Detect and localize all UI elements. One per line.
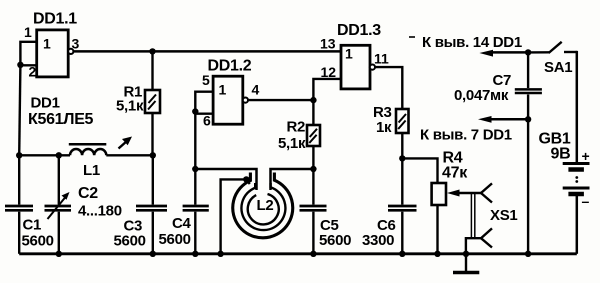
junction C7 bottom rail <box>525 251 531 257</box>
wire pin6 of DD1.2 <box>195 112 213 114</box>
wire C6 top <box>401 158 403 204</box>
wire left rail to C1 <box>18 155 20 204</box>
capacitor C3 <box>136 206 167 210</box>
wire tank top y=155 <box>19 154 70 156</box>
svg-text:К выв. 14 DD1: К выв. 14 DD1 <box>422 34 522 51</box>
svg-text:6: 6 <box>203 113 211 129</box>
wire C4 to bottom rail <box>194 212 196 254</box>
svg-text:1: 1 <box>24 24 32 40</box>
wire R1 top <box>151 51 153 90</box>
wire down to C4 <box>194 169 196 205</box>
svg-text:L1: L1 <box>83 162 100 179</box>
wire L2 tap <box>221 179 250 253</box>
junction C3 bottom rail <box>150 251 156 257</box>
junction C2 top <box>56 152 62 158</box>
svg-text:DD1.3: DD1.3 <box>337 22 381 39</box>
wire C7 bottom to rail <box>527 95 529 254</box>
connector XS1 top contact <box>481 183 492 202</box>
wire C3 to bottom rail <box>152 212 154 254</box>
junction C6 bottom rail <box>399 251 405 257</box>
wire L2 net right segment <box>271 169 314 190</box>
junction DD1.1 inputs <box>17 62 23 68</box>
battery GB1 <box>563 164 590 195</box>
inductor L1 <box>69 137 132 156</box>
wire R4 bottom to rail <box>436 205 438 254</box>
resistor R4 (variable) <box>432 183 446 205</box>
wire pin1 of DD1.1 <box>20 42 36 65</box>
junction R3 / C6 / R4 <box>399 155 405 161</box>
junction XS1 ground rail <box>463 251 469 257</box>
svg-text:C4: C4 <box>172 215 192 232</box>
gate DD1.1 <box>37 30 74 77</box>
svg-text:R2: R2 <box>287 119 306 136</box>
svg-text:5: 5 <box>202 72 210 88</box>
wire pin5 of DD1.2 <box>195 92 213 112</box>
svg-text:–: – <box>582 193 590 209</box>
junction DD1.2 out / R2 / pin12 <box>310 97 316 103</box>
junction L2 tap bottom rail <box>217 251 223 257</box>
capacitor C1 <box>5 206 33 210</box>
wire R2 top <box>312 100 314 125</box>
svg-text:1: 1 <box>345 46 353 62</box>
junction supply 7 node <box>525 116 531 122</box>
svg-text:1: 1 <box>43 36 51 52</box>
wire DD1.2 output <box>248 99 313 101</box>
svg-text:DD1.1: DD1.1 <box>33 11 77 28</box>
wire R4 top branch <box>402 158 437 183</box>
junction R2 / L2 / C5 <box>310 166 316 172</box>
wire R1 bottom to node <box>151 113 153 155</box>
svg-text:L2: L2 <box>257 197 274 214</box>
svg-text:DD1.2: DD1.2 <box>208 58 252 75</box>
svg-text:+: + <box>582 148 590 164</box>
svg-text:3: 3 <box>72 36 80 52</box>
inductor L2 (loop) <box>233 173 293 238</box>
svg-text:К выв. 7 DD1: К выв. 7 DD1 <box>420 127 512 144</box>
junction DD1.2 inputs <box>192 108 198 114</box>
wire bottom rail <box>19 252 577 255</box>
svg-text:5600: 5600 <box>159 231 191 248</box>
junction C4 bottom rail <box>192 251 198 257</box>
wire to pin 12 <box>313 79 341 100</box>
svg-text:5,1к: 5,1к <box>116 98 144 115</box>
junction R4 bottom rail <box>434 251 440 257</box>
wire C6 to bottom rail <box>401 212 403 254</box>
junction L2 tap dot <box>243 176 249 182</box>
supply arrow to pin 7 <box>478 116 528 123</box>
wire L1 to R1 node <box>106 154 153 156</box>
svg-text:4...180: 4...180 <box>78 203 122 220</box>
svg-text:12: 12 <box>321 64 337 80</box>
svg-text:1: 1 <box>219 82 227 98</box>
wire DD1.2 input down <box>194 112 196 170</box>
resistor R2 <box>307 125 320 146</box>
svg-text:3300: 3300 <box>362 232 394 249</box>
wire C5 to bottom rail <box>312 212 314 254</box>
capacitor C2 (variable) <box>45 192 72 219</box>
svg-text:5600: 5600 <box>319 232 351 249</box>
junction L2 net left <box>192 166 198 172</box>
wire R3 bottom <box>401 133 403 158</box>
resistor R1 <box>145 90 160 113</box>
junction R1/C3/L1 node <box>150 152 156 158</box>
svg-text:C1: C1 <box>23 217 42 234</box>
svg-text:5600: 5600 <box>114 232 146 249</box>
svg-text:К561ЛЕ5: К561ЛЕ5 <box>28 111 94 128</box>
connector XS1 bottom contact <box>466 228 492 253</box>
svg-text:DD1: DD1 <box>31 95 60 112</box>
svg-text:13: 13 <box>320 36 336 52</box>
svg-text:47к: 47к <box>442 165 468 182</box>
ground symbol <box>453 254 479 273</box>
junction C5 bottom rail <box>310 251 316 257</box>
connector XS1 body lines <box>471 193 474 238</box>
svg-text:4: 4 <box>252 82 260 98</box>
wire C2 to bottom rail <box>58 212 60 254</box>
svg-text:0,047мк: 0,047мк <box>454 87 509 104</box>
capacitor C5 <box>300 206 327 210</box>
gate DD1.2 <box>213 76 248 124</box>
wire L2 net left segment <box>195 169 256 190</box>
wire C2 vertical top <box>58 155 60 204</box>
junction R1 top <box>149 48 155 54</box>
switch SA1 <box>528 42 577 53</box>
supply arrow to pin 14 <box>479 50 528 57</box>
wire pin2 of DD1.1 <box>20 64 36 66</box>
capacitor C4 <box>183 206 209 210</box>
wire C5 top <box>312 169 314 205</box>
R4 wiper arrow <box>447 190 481 197</box>
resistor R3 <box>396 109 409 133</box>
wire right rail bottom <box>576 196 579 254</box>
wire node to C3 <box>152 155 154 204</box>
svg-text:SA1: SA1 <box>544 59 572 76</box>
svg-text:5,1к: 5,1к <box>278 135 306 152</box>
capacitor C6 <box>388 206 417 210</box>
svg-text:C2: C2 <box>78 185 98 202</box>
wire R2 bottom <box>312 146 314 169</box>
wire right rail top <box>576 51 579 162</box>
junction left rail / tank wire <box>16 152 22 158</box>
wire C1 to bottom rail <box>18 212 20 254</box>
junction C7 top / SA1 <box>525 49 531 55</box>
wire DD1.3 output <box>375 67 402 109</box>
junction C2 bottom rail <box>56 251 62 257</box>
svg-text:9В: 9В <box>551 146 571 163</box>
svg-text:5600: 5600 <box>22 232 54 249</box>
speck artifact <box>409 36 415 38</box>
svg-text:XS1: XS1 <box>490 207 517 224</box>
gate DD1.3 <box>341 45 375 89</box>
svg-text:11: 11 <box>374 51 389 67</box>
wire left rail down <box>19 65 20 156</box>
wire top net DD1.1 out to DD1.3 pin13 <box>73 50 341 53</box>
svg-text:1к: 1к <box>376 119 392 136</box>
wire C7 top <box>527 52 529 88</box>
capacitor C7 <box>515 89 542 93</box>
